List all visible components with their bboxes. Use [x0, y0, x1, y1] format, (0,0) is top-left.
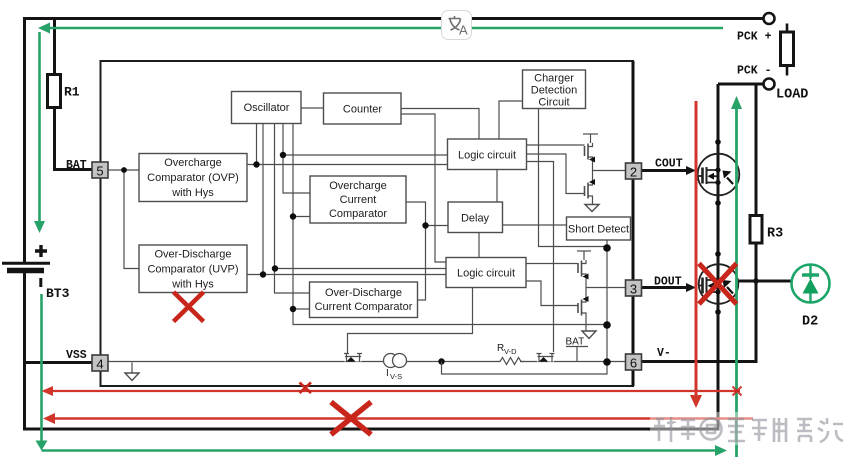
- red blocked path: vertical down arrow: [690, 101, 702, 408]
- red X big on line 2: [331, 402, 371, 435]
- svg-text:D2: D2: [802, 315, 818, 330]
- svg-text:BAT: BAT: [66, 159, 87, 172]
- wire CDC to logic1 top: [499, 101, 523, 139]
- ground below lower pair: [582, 331, 596, 339]
- block Logic circuit upper: [448, 139, 527, 170]
- green discharge path: bottom line right arrow: [42, 445, 728, 456]
- wire CDC bottom to short-detect node: [539, 109, 608, 247]
- wire: BAT line to pin 5: [53, 168, 93, 171]
- svg-text:LOAD: LOAD: [776, 88, 808, 103]
- svg-text:Delay: Delay: [461, 213, 490, 225]
- node dots internal: [121, 167, 127, 173]
- node dot rail junction: [438, 358, 444, 364]
- transistor Q1 COUT MOSFET: [698, 154, 740, 196]
- wire: DOUT mosfet to D2: [739, 280, 792, 283]
- svg-text:Comparator (UVP): Comparator (UVP): [147, 264, 238, 276]
- wire y268 to logic2: [275, 268, 446, 270]
- ground below upper pair: [585, 205, 599, 212]
- wire y155 to logic1: [283, 154, 448, 156]
- green charge path: left vertical down arrow: [34, 32, 45, 233]
- wire logic1 out gate1: [527, 144, 585, 146]
- red small x on line 1: [300, 383, 312, 394]
- pin 3: [626, 280, 642, 297]
- block Over-Discharge Current Comparator: [310, 282, 418, 318]
- wire logic2 out gate2: [526, 281, 578, 306]
- wire: outer left border (battery branch upper): [23, 17, 26, 262]
- svg-text:Logic circuit: Logic circuit: [458, 150, 516, 162]
- red X over DOUT MOSFET: [699, 264, 737, 305]
- pin 2: [626, 163, 642, 180]
- wire logic1 out gate2: [527, 154, 585, 194]
- wire drain node to pin 2: [593, 170, 627, 172]
- wire osc vertical 1: [256, 124, 258, 165]
- block Overcharge Current Comparator: [310, 176, 406, 223]
- block Overcharge Comparator OVP: [139, 154, 247, 202]
- svg-text:Over-Discharge: Over-Discharge: [325, 287, 402, 299]
- svg-text:Logic circuit: Logic circuit: [457, 268, 515, 280]
- transistor pair lower: PMOS source bar: [577, 251, 591, 288]
- svg-text:Counter: Counter: [343, 104, 382, 116]
- svg-text:BAT: BAT: [566, 337, 585, 348]
- wire logic1 out to M2: [527, 162, 554, 353]
- svg-text:2: 2: [630, 165, 637, 180]
- svg-text:V-S: V-S: [390, 372, 402, 381]
- wire: outer left border (battery branch lower): [23, 271, 26, 431]
- svg-text:3: 3: [630, 282, 637, 297]
- resistor pack load: [781, 24, 794, 76]
- wire osc vertical 4 to OCC: [283, 124, 310, 194]
- svg-text:Over-Discharge: Over-Discharge: [154, 249, 231, 261]
- wire: VSS line to pin 4: [23, 361, 93, 364]
- translate icon: [442, 11, 472, 40]
- transistor pair upper: NMOS: [585, 171, 596, 205]
- block Counter: [324, 93, 402, 124]
- terminal LOAD: [764, 79, 775, 90]
- block Over-Discharge Comparator UVP: [139, 245, 247, 293]
- wire: PCK-/LOAD horizontal: [718, 83, 764, 86]
- block Delay: [448, 202, 503, 233]
- red X under UVP: [174, 292, 204, 322]
- wire: DOUT arrow from pin 3: [641, 283, 696, 292]
- wire counter out1 to logic1 top: [401, 109, 479, 140]
- svg-text:with Hys: with Hys: [171, 279, 214, 291]
- resistor R1: [48, 17, 61, 170]
- resistor R3: [750, 84, 762, 362]
- svg-text:Short Detect: Short Detect: [568, 224, 629, 236]
- svg-text:4: 4: [96, 357, 103, 372]
- wire: COUT arrow from pin 2: [641, 166, 696, 175]
- wire ODCC input2: [293, 308, 310, 310]
- svg-text:Overcharge: Overcharge: [329, 180, 386, 192]
- svg-text:Comparator: Comparator: [329, 208, 387, 220]
- wire short detect down to VSS rail: [606, 240, 608, 362]
- wire: outer bottom line: [23, 428, 720, 431]
- wire osc vertical 2: [262, 124, 264, 275]
- svg-text:PCK +: PCK +: [737, 31, 772, 44]
- block Oscillator: [232, 92, 302, 124]
- pin 6: [626, 354, 642, 371]
- IC right border emphasis: [632, 61, 635, 386]
- wire counter out2 to logic2: [401, 114, 446, 262]
- svg-text:V-D: V-D: [504, 347, 517, 356]
- svg-text:V-: V-: [657, 347, 671, 360]
- wire VSS internal rail: [108, 361, 626, 363]
- terminal PCK+: [764, 13, 775, 24]
- wire logic2 out gate1: [526, 263, 578, 265]
- wire: pack right vertical through MOSFETs: [717, 84, 720, 429]
- svg-text:R3: R3: [767, 227, 783, 242]
- wire rail bypass lower: [442, 362, 608, 375]
- block Charger Detection Circuit: [523, 70, 586, 109]
- green charge path: top line with left arrow: [38, 23, 723, 34]
- svg-text:R1: R1: [64, 85, 80, 100]
- block Logic circuit lower: [446, 258, 526, 288]
- wire join to Delay: [426, 225, 449, 227]
- svg-text:DOUT: DOUT: [654, 276, 682, 289]
- svg-text:Detection: Detection: [531, 85, 577, 97]
- transistor Q2 DOUT MOSFET: [698, 264, 738, 304]
- green discharge path: lower-left vertical down arrow: [36, 294, 48, 451]
- svg-text:Overcharge: Overcharge: [164, 157, 221, 169]
- wire pin5 to OVP and UVP: [108, 170, 139, 269]
- pin 5: [92, 162, 108, 179]
- diode D2: [792, 264, 830, 303]
- block Short Detect: [567, 217, 631, 240]
- watermark zhihu: [650, 412, 848, 445]
- current source IV-S: [384, 354, 407, 368]
- svg-text:with Hys: with Hys: [171, 187, 214, 199]
- transistor M2 on rail: [537, 354, 555, 362]
- red tiny x at line 1 right end: [733, 387, 742, 396]
- wire logic2 bottom to M1 gate: [348, 288, 473, 353]
- ground at pin 4: [125, 363, 139, 381]
- wire drain node to pin 3: [586, 287, 626, 289]
- label BAT internal with tie bar: [566, 337, 589, 362]
- wire OCC input2: [293, 216, 310, 218]
- svg-text:6: 6: [630, 356, 637, 371]
- IC outline U1: [101, 61, 634, 386]
- svg-text:VSS: VSS: [66, 349, 87, 362]
- wire osc vertical 3 to ODCC: [275, 124, 310, 294]
- wire OCC/ODCC outputs join: [406, 202, 426, 300]
- wire OVP output to logic1: [247, 164, 448, 166]
- wire: V- line from pin 6: [641, 360, 758, 363]
- red blocked path: line 1 with left arrow: [42, 386, 741, 396]
- transistor pair upper: PMOS source bar: [583, 134, 598, 171]
- resistor RV-D zigzag: [497, 356, 524, 365]
- wire delay bottom to logic2: [478, 233, 480, 258]
- svg-text:PCK -: PCK -: [737, 65, 772, 78]
- node dots on pack vertical: [715, 139, 721, 145]
- svg-text:I: I: [386, 368, 389, 379]
- svg-text:A: A: [459, 23, 468, 38]
- svg-text:Charger: Charger: [534, 73, 574, 85]
- transistor pair lower: NMOS: [578, 288, 589, 332]
- svg-text:Circuit: Circuit: [538, 97, 569, 109]
- transistor M1 on rail: [344, 352, 362, 362]
- wire delay to short detect: [503, 224, 567, 226]
- svg-text:Oscillator: Oscillator: [244, 102, 290, 114]
- red blocked path: line 2 with left arrow: [43, 413, 753, 424]
- svg-text:Comparator (OVP): Comparator (OVP): [147, 172, 239, 184]
- svg-text:COUT: COUT: [655, 158, 683, 171]
- wire logic1 bottom to delay: [496, 170, 498, 203]
- svg-text:BT3: BT3: [46, 286, 70, 301]
- svg-text:Current: Current: [340, 194, 377, 206]
- svg-text:Current Comparator: Current Comparator: [315, 301, 413, 313]
- wire osc vertical 5 long: [293, 124, 606, 325]
- green discharge path: right vertical up arrow: [731, 96, 742, 457]
- wire UVP output to logic2: [247, 274, 446, 276]
- battery BT3: [2, 245, 50, 287]
- node R3/D2 junction: [753, 278, 759, 284]
- wire oscillator to counter: [301, 107, 324, 109]
- pin 4: [92, 355, 108, 372]
- wire: pack top line PCK+: [23, 17, 764, 20]
- svg-text:5: 5: [96, 164, 103, 179]
